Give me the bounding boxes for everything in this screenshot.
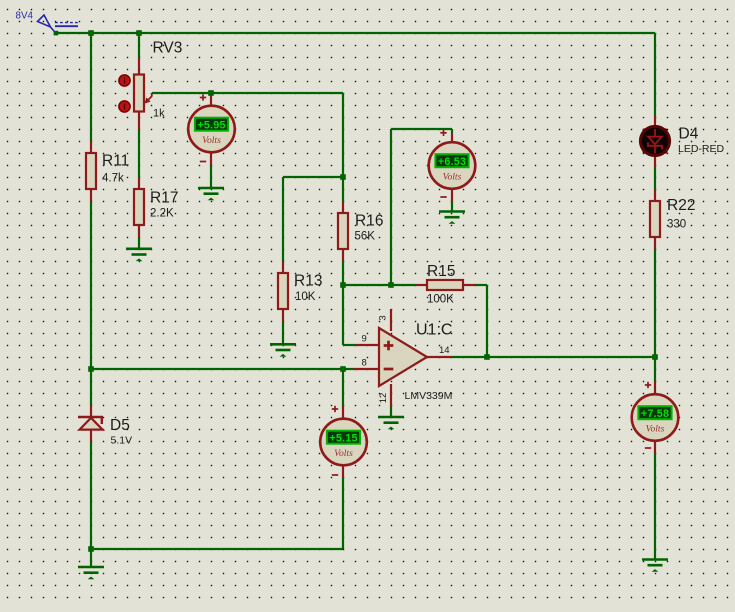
svg-text:R15: R15 <box>427 263 455 280</box>
svg-text:LMV339M: LMV339M <box>405 390 453 402</box>
svg-text:3: 3 <box>378 315 389 320</box>
svg-text:56K: 56K <box>355 231 376 243</box>
svg-text:LED-RED: LED-RED <box>678 143 725 155</box>
svg-text:R16: R16 <box>355 213 383 230</box>
svg-text:R17: R17 <box>150 190 178 207</box>
svg-text:Volts: Volts <box>646 424 665 435</box>
svg-text:14: 14 <box>439 345 450 356</box>
svg-text:D5: D5 <box>110 417 130 434</box>
svg-text:9: 9 <box>362 334 367 345</box>
svg-text:Volts: Volts <box>443 172 462 183</box>
svg-text:+6.53: +6.53 <box>438 156 466 168</box>
svg-text:Volts: Volts <box>202 135 221 146</box>
svg-text:+5.95: +5.95 <box>197 119 225 131</box>
svg-text:4.7k: 4.7k <box>102 173 124 185</box>
svg-text:+5.15: +5.15 <box>329 432 357 444</box>
svg-text:8: 8 <box>362 358 367 369</box>
svg-text:D4: D4 <box>679 126 699 143</box>
svg-text:8V4: 8V4 <box>16 11 34 22</box>
svg-text:U1:C: U1:C <box>416 322 452 339</box>
svg-text:Volts: Volts <box>334 448 353 459</box>
svg-text:2.2K: 2.2K <box>150 208 174 220</box>
svg-text:RV3: RV3 <box>153 40 183 57</box>
svg-text:100K: 100K <box>427 294 454 306</box>
svg-text:R22: R22 <box>667 197 695 214</box>
svg-text:330: 330 <box>667 219 686 231</box>
svg-text:R11: R11 <box>102 153 129 170</box>
svg-text:10K: 10K <box>295 291 316 303</box>
svg-text:+7.58: +7.58 <box>641 408 669 420</box>
svg-text:12: 12 <box>378 393 389 404</box>
svg-text:1k: 1k <box>153 108 165 120</box>
svg-text:R13: R13 <box>294 273 322 290</box>
svg-text:5.1V: 5.1V <box>111 435 133 447</box>
